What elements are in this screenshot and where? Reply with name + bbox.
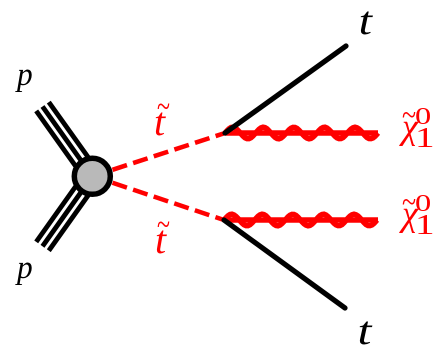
- svg-text:p: p: [15, 248, 33, 285]
- svg-text:p: p: [15, 55, 33, 92]
- svg-text:~: ~: [157, 90, 170, 125]
- svg-text:~: ~: [157, 208, 170, 243]
- svg-text:1: 1: [415, 209, 435, 241]
- svg-text:~: ~: [402, 98, 416, 133]
- svg-text:t: t: [359, 0, 374, 43]
- svg-text:~: ~: [402, 185, 416, 220]
- svg-text:1: 1: [415, 122, 435, 154]
- svg-text:t: t: [358, 309, 373, 353]
